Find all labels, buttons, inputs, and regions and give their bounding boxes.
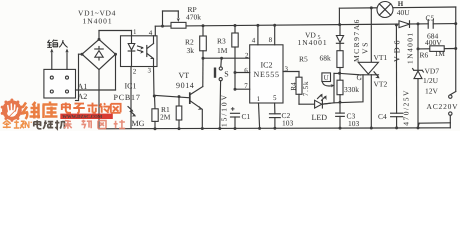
junction VD5 top / lamp riser (338, 23, 341, 26)
svg-text:VT: VT (179, 71, 190, 80)
svg-text:470k: 470k (186, 12, 201, 21)
svg-text:C4: C4 (378, 112, 387, 121)
junction bridge top (98, 38, 101, 41)
wire IC1 pin3 down to base node (153, 67, 156, 97)
svg-text:9014: 9014 (176, 81, 194, 90)
junction pin7 node (234, 88, 237, 91)
watermark (1, 99, 126, 129)
junction C5 right rail (454, 22, 457, 25)
svg-text:4: 4 (149, 29, 153, 37)
svg-text:1N4001: 1N4001 (298, 38, 328, 47)
svg-text:NE555: NE555 (254, 70, 280, 79)
junction VD7 top (417, 22, 420, 25)
svg-text:8: 8 (269, 36, 273, 44)
transistor VT 9014 (190, 58, 203, 128)
svg-text:LED: LED (312, 113, 328, 122)
svg-text:R3: R3 (217, 37, 226, 46)
svg-text:U: U (324, 74, 329, 82)
diode VD5 (336, 25, 343, 51)
watermark No1 badge (25, 121, 32, 128)
watermark red band www.dzsc.com (60, 114, 113, 121)
svg-text:3k: 3k (187, 46, 195, 55)
IC1 internal phototransistor (147, 36, 154, 67)
svg-text:AC220V: AC220V (427, 102, 459, 111)
svg-text:12V: 12V (425, 87, 439, 96)
IC1 internal LED (128, 36, 144, 67)
watermark 采购网站 characters (64, 120, 125, 129)
resistor R5 (337, 51, 343, 74)
resistor R3 (232, 26, 238, 90)
switch S (215, 58, 222, 128)
svg-text:1: 1 (133, 28, 137, 36)
junction SCR anode at top rail (370, 6, 373, 9)
svg-text:470/25V: 470/25V (402, 89, 411, 126)
svg-text:MCR97A6: MCR97A6 (352, 18, 361, 62)
555 pin3 wire to R4 (283, 72, 299, 78)
svg-text:A2: A2 (78, 92, 88, 101)
svg-text:3: 3 (148, 67, 152, 75)
svg-text:103: 103 (282, 119, 294, 128)
resistor R1 (176, 97, 182, 129)
watermark logo circle (1, 99, 23, 122)
svg-text:7.5k: 7.5k (302, 81, 310, 96)
svg-text:7: 7 (244, 82, 248, 90)
svg-text:1N4001: 1N4001 (83, 16, 113, 25)
AC220V terminal top (449, 95, 452, 98)
svg-text:VS: VS (360, 41, 369, 54)
watermark 维库 characters (23, 102, 58, 120)
svg-text:2: 2 (245, 51, 249, 59)
wire LED to cathode riser (322, 75, 363, 104)
thyristor VS (MCR97A6) (358, 8, 379, 128)
IC2 NE555 box (250, 45, 283, 103)
junction R2 top (202, 24, 205, 27)
svg-text:4: 4 (252, 37, 256, 45)
diode VD6 (399, 21, 410, 28)
wire bridge bottom to ground rail (98, 70, 100, 129)
junction R2 bottom (202, 57, 205, 60)
svg-text:PCB17: PCB17 (114, 93, 141, 102)
svg-text:68k: 68k (320, 54, 332, 63)
junction bridge left (81, 53, 84, 56)
junction switch top (220, 57, 223, 60)
label 输入 (input) (47, 40, 67, 48)
svg-text:1M: 1M (435, 49, 446, 58)
junction gate node (338, 72, 341, 75)
capacitor C1 (231, 107, 240, 128)
svg-text:1M: 1M (217, 46, 228, 55)
AC220V terminal bottom (449, 112, 452, 115)
vcc rail (sloped) segment 1 (155, 24, 428, 26)
555 pin6 wire (235, 72, 250, 74)
input arrow 2 (65, 49, 68, 70)
svg-text:5: 5 (273, 94, 277, 102)
junction pin8 (273, 24, 276, 27)
svg-text:WWW.DZSC.COM: WWW.DZSC.COM (62, 114, 103, 120)
555 pin7 wire (235, 88, 250, 90)
ground rail (99, 128, 450, 129)
junction base node MG (153, 95, 156, 98)
svg-text:2: 2 (133, 67, 137, 75)
right edge wire down (450, 7, 455, 95)
svg-text:1N4001: 1N4001 (406, 31, 415, 64)
svg-text:2M: 2M (160, 112, 171, 121)
svg-text:40U: 40U (397, 8, 411, 17)
resistor R6 (418, 46, 456, 52)
junction pin6 node (234, 71, 237, 74)
top rail (339, 7, 455, 8)
wire bridge top to IC1 pin1 (99, 31, 132, 40)
vcc rail segment 2 (433, 23, 456, 25)
optocoupler IC1 box (121, 36, 158, 67)
capacitor C3 (336, 113, 345, 128)
svg-text:R6: R6 (420, 51, 429, 60)
svg-text:6: 6 (244, 66, 248, 74)
wire LED riser to gate node (334, 73, 340, 102)
svg-text:VD7: VD7 (425, 67, 440, 76)
zener diode VD7 (413, 69, 424, 128)
capacitor C2 (270, 114, 281, 128)
555 pin8 wire (274, 26, 276, 45)
rail junction dots (154, 126, 420, 130)
junction bridge right (114, 53, 117, 56)
svg-text:IC2: IC2 (261, 61, 273, 70)
watermark 电子市场网 characters (62, 103, 121, 114)
svg-text:15/10V: 15/10V (219, 93, 228, 127)
wire A1 (76, 54, 116, 90)
junction C4 top (395, 23, 398, 26)
watermark bottom row 全球 (3, 120, 25, 128)
svg-text:1: 1 (257, 95, 261, 103)
capacitor C4 (391, 25, 403, 128)
svg-text:R4: R4 (290, 82, 298, 91)
555 pin1 wire (259, 103, 260, 128)
SCR gate wire (340, 73, 359, 74)
svg-text:VT1: VT1 (374, 53, 388, 62)
capacitor C5 (428, 20, 433, 29)
trigger line 555 pin2 (203, 57, 250, 59)
wire A2 (76, 54, 83, 100)
resistor R4 (296, 77, 302, 104)
svg-text:330k: 330k (344, 85, 359, 94)
svg-text:S: S (224, 70, 228, 79)
svg-text:103: 103 (348, 119, 360, 128)
input terminal box (44, 69, 76, 98)
photoresistor MG (128, 96, 158, 128)
wire IC1 pin2 down to rail (130, 67, 132, 129)
junction RP left (161, 25, 164, 28)
555 pin4 wire (257, 26, 259, 45)
lamp H (377, 2, 393, 18)
base line to VT (154, 95, 190, 98)
wire IC1 pin4 up to vcc rail (154, 26, 156, 36)
input arrow 1 (50, 49, 53, 70)
LED (299, 94, 330, 109)
svg-text:MG: MG (132, 119, 145, 128)
junction R6 right (454, 47, 457, 50)
AC220V return wire (418, 115, 450, 127)
wire VD7 stub (417, 24, 419, 70)
junction R3 top (234, 24, 237, 27)
junction pin4 (256, 24, 259, 27)
annotation U box with arrow (322, 73, 335, 88)
svg-text:1/2U: 1/2U (423, 76, 439, 85)
svg-text:C1: C1 (242, 112, 251, 121)
svg-text:H: H (398, 0, 404, 8)
potentiometer RP (163, 11, 187, 28)
resistor 330k (337, 73, 343, 113)
svg-text:R5: R5 (299, 54, 308, 63)
watermark 电话机 characters (34, 120, 65, 129)
svg-text:VT2: VT2 (374, 79, 388, 88)
555 pin5 wire (274, 103, 276, 114)
lamp riser wire (338, 8, 340, 24)
bridge rectifier VD1-VD4 (82, 39, 116, 69)
junction R6 left (417, 47, 420, 50)
junction 330k bottom at line (339, 101, 342, 104)
resistor R2 (200, 26, 207, 58)
svg-text:C5: C5 (426, 14, 435, 23)
junction base node R1 (178, 95, 181, 98)
